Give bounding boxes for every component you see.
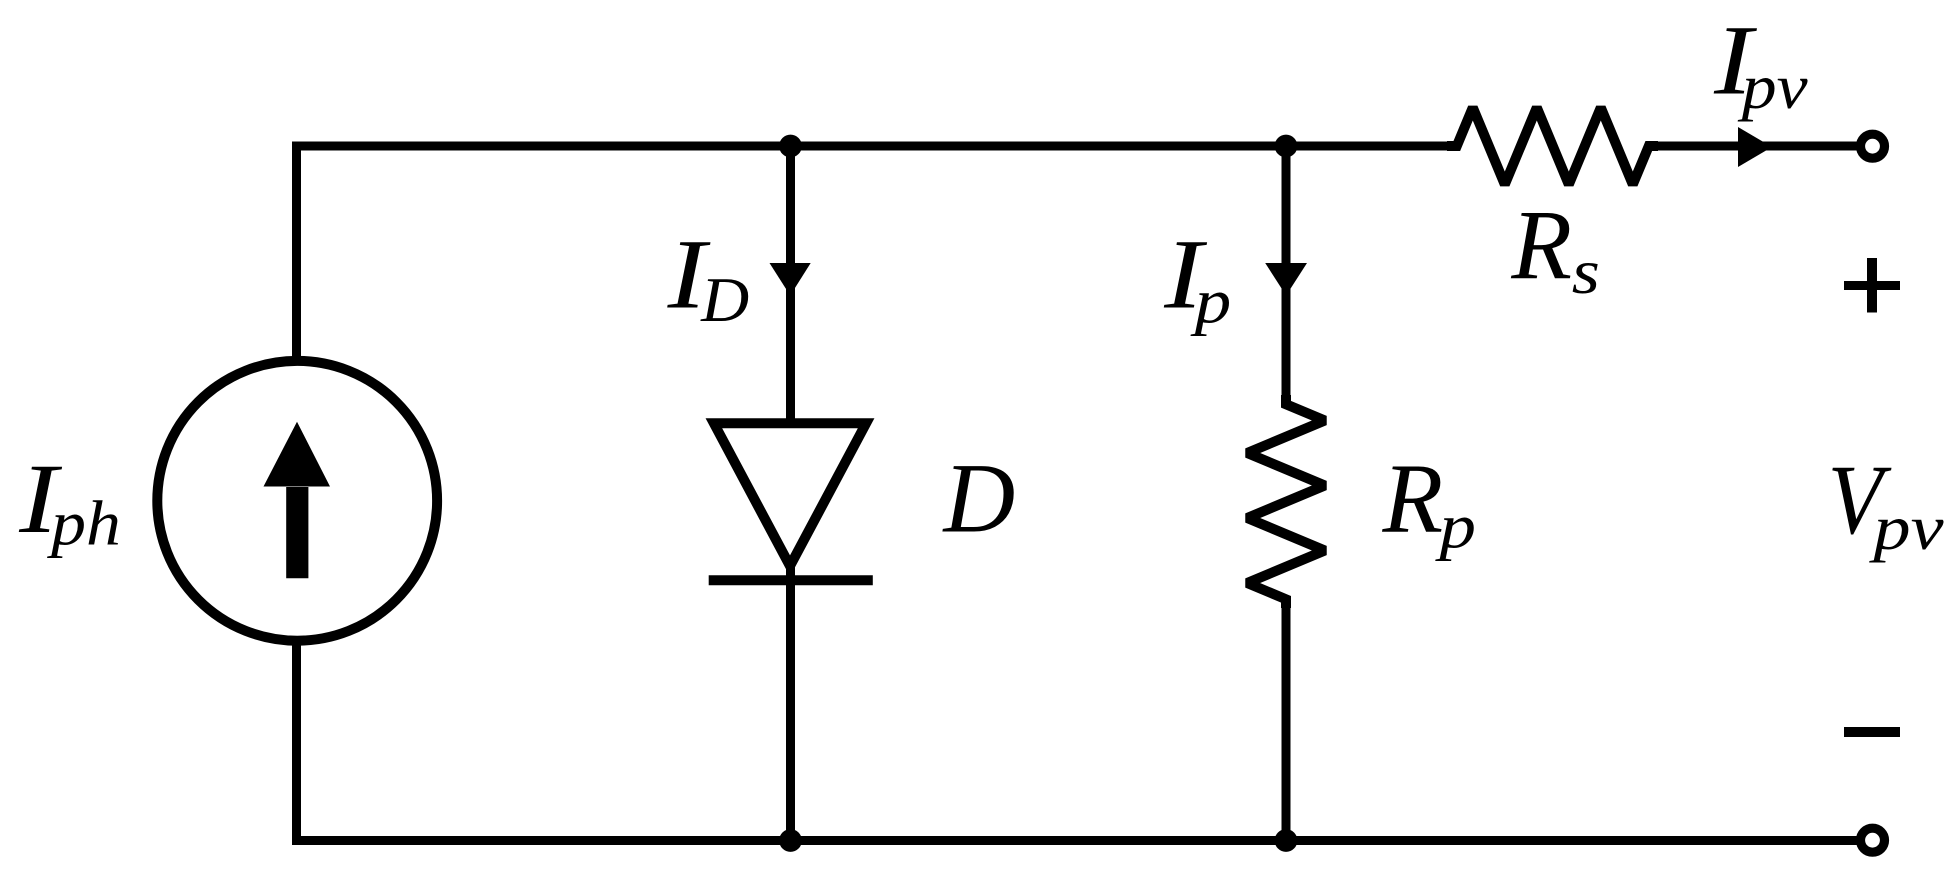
current source Iph circle [157,361,437,641]
resistor Rs zigzag [1447,108,1658,185]
wire: diode branch upper [786,146,795,423]
wire: bottom rail from current source to negative terminal [297,641,1860,841]
wire: top-left corner from current source up and across to Rs [297,146,1457,362]
diode D triangle [714,423,866,566]
svg-text:ph: ph [47,489,121,558]
svg-text:R: R [1382,445,1444,554]
terminal positive [1861,134,1885,158]
resistor Rp zigzag [1247,395,1325,608]
arrow Ipv current [1738,127,1772,167]
node junction dot top Rp [1275,135,1298,158]
wire: diode branch lower [786,566,795,841]
node junction dot top diode [779,135,802,158]
svg-text:pv: pv [1738,53,1808,122]
node junction dot bottom Rp [1275,829,1298,852]
wire: Rp branch lower [1282,599,1291,840]
wire: Rp branch upper [1282,146,1291,404]
arrow Ip current [1265,263,1307,296]
svg-text:s: s [1572,236,1600,307]
svg-text:p: p [1190,266,1231,337]
plus sign [1844,258,1900,313]
wire: top right from Rs to positive terminal [1649,142,1858,151]
svg-text:pv: pv [1868,493,1944,563]
terminal negative [1861,828,1885,852]
minus sign [1844,727,1900,737]
svg-text:p: p [1435,491,1476,562]
diode D cathode bar [709,575,873,585]
current source arrow [264,422,331,579]
node junction dot bottom diode [779,829,802,852]
svg-text:D: D [700,266,749,336]
svg-text:R: R [1510,191,1572,300]
arrow ID current [770,263,811,296]
svg-text:D: D [942,444,1016,553]
